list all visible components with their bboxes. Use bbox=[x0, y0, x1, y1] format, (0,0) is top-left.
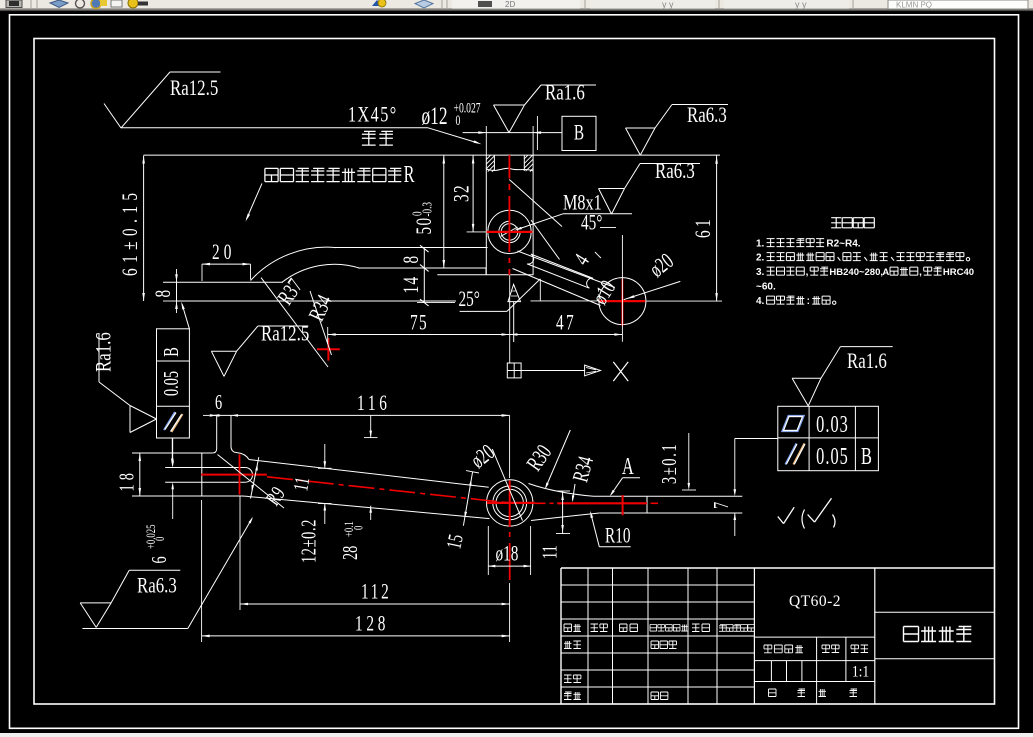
dimension 8 (band thickness) bbox=[423, 249, 425, 268]
upper view: base strip top edge bbox=[163, 281, 283, 283]
upper view: hatching right band bbox=[524, 155, 528, 159]
svg-text:8: 8 bbox=[151, 290, 176, 298]
svg-text:61±0.15: 61±0.15 bbox=[118, 187, 143, 276]
label CJK: shen-he (check) bbox=[564, 675, 572, 683]
dimension 18 bbox=[139, 453, 141, 496]
dimension 61±0.15 left bbox=[143, 156, 145, 302]
svg-text:3.: 3. bbox=[756, 267, 765, 278]
flatness symbol bbox=[783, 416, 804, 431]
centerline: neck vertical (red) bbox=[239, 454, 241, 494]
title block stage row verticals bbox=[816, 637, 818, 704]
svg-text:Ra6.3: Ra6.3 bbox=[687, 103, 727, 128]
svg-text:R2~R4.: R2~R4. bbox=[826, 239, 860, 250]
svg-text:1X45°: 1X45° bbox=[348, 103, 398, 127]
lower view: neck left edge bbox=[216, 415, 218, 448]
svg-text:A: A bbox=[882, 267, 889, 278]
dimension 12±0.2 bbox=[324, 444, 326, 468]
tolerance frame (flatness 0.03 / parallelism 0.05 B) bbox=[778, 406, 879, 470]
upper view: M8 tapped hole circle bbox=[501, 224, 518, 241]
toolbar icon: window bbox=[6, 0, 22, 8]
centerline: bar slot horizontal (red) bbox=[201, 474, 267, 476]
extension: ball center vertical bbox=[621, 235, 623, 342]
centerline: right arm horizontal (red) bbox=[535, 502, 546, 504]
svg-text:y y: y y bbox=[795, 0, 807, 10]
dimension 8 (base thickness, left) bbox=[176, 269, 178, 282]
svg-text:12±0.2: 12±0.2 bbox=[297, 519, 320, 563]
label CJK: she-ji (design) bbox=[564, 641, 572, 649]
svg-text:QT60-2: QT60-2 bbox=[789, 593, 841, 610]
dimension 61 right bbox=[716, 155, 718, 301]
lower view: slot right end arc bbox=[245, 468, 252, 483]
svg-text:y y: y y bbox=[662, 0, 674, 10]
lower view: slot upper line bbox=[165, 467, 245, 469]
lower view: right neck bottom curve bbox=[531, 513, 599, 521]
centerline: ball cross (red) bbox=[621, 279, 623, 296]
label CJK liang-duan (both ends) bbox=[362, 131, 376, 145]
svg-text:116: 116 bbox=[357, 391, 391, 416]
svg-text:R: R bbox=[404, 162, 415, 188]
upper view: base strip left edge bbox=[176, 282, 178, 301]
title block outline bbox=[561, 567, 995, 569]
dimension 6 top bbox=[210, 414, 217, 417]
svg-text:B: B bbox=[159, 347, 182, 357]
svg-text:20: 20 bbox=[212, 240, 235, 265]
lower view: bar top edge with extension bbox=[132, 452, 212, 454]
svg-text:0: 0 bbox=[153, 536, 167, 541]
toolbar white field bbox=[452, 0, 580, 9]
dimension 112 bbox=[240, 603, 510, 605]
svg-text:0.05: 0.05 bbox=[159, 371, 182, 396]
dimension 3±0.1 bbox=[688, 433, 690, 487]
radius leader R37 bbox=[261, 278, 328, 367]
svg-text:128: 128 bbox=[355, 612, 389, 637]
upper view: ball end circle bbox=[599, 278, 646, 325]
dimension line 75/47 horizontal bbox=[328, 334, 623, 336]
dimension 28 +0.1/0 bbox=[370, 415, 372, 437]
svg-text:25°: 25° bbox=[459, 287, 480, 312]
svg-text:112: 112 bbox=[361, 580, 392, 605]
upper view: shaft bottom face bbox=[437, 274, 533, 276]
svg-text:4.: 4. bbox=[756, 296, 765, 307]
centerline: arm inclined (red dash-dot) bbox=[267, 477, 510, 503]
dimension ø12 +0.027/0 and line to datum B bbox=[463, 132, 562, 134]
svg-text:B: B bbox=[861, 444, 872, 470]
svg-text:47: 47 bbox=[556, 311, 576, 336]
title block QT60-2 cell bbox=[754, 636, 874, 638]
surface symbol Ra6.3 (on M8 leader line) bbox=[599, 188, 625, 190]
surface symbol Ra12.5 top-left bbox=[104, 104, 121, 129]
svg-text:Ra1.6: Ra1.6 bbox=[91, 332, 116, 372]
lower view: slot lower line bbox=[165, 481, 245, 483]
svg-text:+0.025: +0.025 bbox=[144, 524, 158, 549]
svg-text:Ra6.3: Ra6.3 bbox=[137, 573, 177, 598]
svg-text:ø12: ø12 bbox=[422, 102, 448, 130]
toolbar icon: blue diamond bbox=[50, 0, 68, 8]
dimension 7 with frame leader bbox=[734, 439, 736, 494]
upper view: hatching left band bbox=[486, 155, 490, 159]
radius label R9 with leader bbox=[218, 455, 285, 509]
X axis label bbox=[613, 362, 628, 381]
svg-text:B: B bbox=[574, 121, 584, 146]
lower view: right bar bottom edge bbox=[599, 512, 742, 514]
part number QT60-2 is above; part name CJK: speed regulating lever bbox=[904, 627, 919, 642]
svg-text:75: 75 bbox=[410, 311, 428, 336]
surface symbol Ra1.6 rotated (left) bbox=[98, 333, 100, 382]
feature control frame vertical (parallelism 0.05 B) bbox=[157, 329, 190, 438]
svg-text:50: 50 bbox=[412, 216, 437, 234]
svg-text:6: 6 bbox=[215, 390, 222, 413]
svg-text:0: 0 bbox=[352, 525, 366, 530]
upper view: break (wavy) line across shaft bbox=[486, 168, 533, 171]
upper view: shaft right edge bbox=[532, 155, 534, 275]
upper view: arm lower tangent line to ball bbox=[513, 269, 601, 306]
svg-text:1.: 1. bbox=[756, 239, 765, 250]
svg-text:11: 11 bbox=[538, 545, 561, 559]
lower view: hub bore circle bbox=[496, 489, 523, 516]
frame leader to lower view slot bbox=[171, 438, 173, 464]
surface symbol Ra12.5 lower bbox=[211, 350, 236, 352]
svg-text:28: 28 bbox=[338, 546, 361, 560]
dimension 128 bbox=[202, 635, 510, 637]
svg-text:Ra6.3: Ra6.3 bbox=[655, 159, 695, 184]
toolbar icon: globe bbox=[91, 0, 101, 9]
svg-text:A: A bbox=[622, 454, 634, 480]
svg-text:Ra1.6: Ra1.6 bbox=[545, 80, 585, 105]
svg-text:Ra12.5: Ra12.5 bbox=[261, 321, 309, 346]
svg-text:-0.3: -0.3 bbox=[421, 202, 435, 217]
rest-of-surfaces mark: check ( check ) bbox=[778, 517, 784, 524]
upper view: arm slot (rounded) bbox=[527, 254, 593, 288]
svg-text:2.: 2. bbox=[756, 253, 765, 264]
svg-text:,: , bbox=[806, 267, 809, 278]
upper view: arm band bottom edge bbox=[358, 267, 486, 269]
parallelism symbol bbox=[786, 444, 797, 465]
technical requirements title CJK bbox=[831, 218, 841, 228]
toolbar icon: light diamond bbox=[415, 0, 433, 8]
dimension 15 (across arm) bbox=[463, 472, 472, 526]
bottom status strip bbox=[0, 733, 1033, 737]
lower view: section line at A bbox=[646, 496, 648, 513]
note CJK: machining allowed within this length R bbox=[265, 168, 278, 181]
dimension 11 right bbox=[562, 491, 564, 534]
lower view: right neck top concave curve R30 bbox=[529, 484, 594, 497]
svg-text:3±0.1: 3±0.1 bbox=[657, 443, 680, 484]
dimension 116 bbox=[212, 414, 510, 416]
svg-text:18: 18 bbox=[115, 469, 138, 491]
svg-text:HRC40: HRC40 bbox=[943, 267, 974, 278]
label CJK: stage mark / weight / scale bbox=[764, 645, 772, 653]
svg-text:45°: 45° bbox=[581, 211, 602, 236]
title block left table verticals bbox=[587, 568, 589, 704]
svg-text:32: 32 bbox=[450, 184, 475, 202]
centerline: shaft vertical (red) bbox=[508, 155, 510, 178]
surface symbol Ra6.3 (on top edge) bbox=[626, 127, 656, 129]
svg-text:Ra12.5: Ra12.5 bbox=[170, 76, 218, 101]
svg-text:R10: R10 bbox=[605, 524, 630, 549]
label CJK: gong-yi (process) bbox=[564, 692, 572, 700]
lower view: bar bottom edge with extension bbox=[132, 495, 242, 497]
upper view: elbow inner arc R34 bbox=[282, 264, 360, 282]
lower view: bar left edge bbox=[201, 453, 203, 496]
dimension 6 +0.025/0 (slot) bbox=[172, 438, 174, 463]
svg-text:61: 61 bbox=[691, 216, 716, 238]
toolbar separators mid bbox=[441, 0, 443, 8]
svg-text:~60.: ~60. bbox=[756, 282, 776, 293]
upper view: 45deg second line bbox=[531, 220, 560, 260]
lower view: R9 fillet and arm top edge bbox=[237, 453, 249, 460]
centerline: boss horizontal (red) bbox=[487, 231, 533, 233]
svg-text::: : bbox=[807, 296, 810, 307]
svg-text:2D: 2D bbox=[505, 0, 515, 9]
svg-text:14: 14 bbox=[399, 275, 424, 293]
radius leader R34 bbox=[310, 291, 332, 355]
upper view: elbow outer arc R37 bbox=[251, 247, 337, 280]
lower view: arm bottom edge bbox=[242, 495, 249, 498]
centerline: hub cross (red) bbox=[487, 502, 535, 504]
dimension 20 bbox=[202, 263, 251, 265]
svg-text:ø18: ø18 bbox=[496, 542, 519, 567]
surface symbol Ra6.3 lower-left with leader bbox=[80, 602, 111, 604]
upper view: arm band top edge bbox=[334, 247, 488, 249]
CAD application toolbar strip (cut off at top) bbox=[0, 0, 1033, 11]
extension: 75 left to arc center bbox=[327, 327, 329, 344]
arc center mark red cross (R37/R34 center) bbox=[317, 348, 340, 350]
toolbar icon: box bbox=[111, 0, 122, 7]
upper view: part top edge line (61 extension, full length) bbox=[144, 154, 720, 156]
svg-text:Ra1.6: Ra1.6 bbox=[847, 349, 887, 374]
lower view: hub middle circle bbox=[493, 486, 527, 520]
label CJK: biao-ji (mark) row bbox=[564, 624, 572, 632]
svg-text:6: 6 bbox=[147, 556, 170, 563]
surface symbol Ra1.6 lower right bbox=[792, 377, 821, 379]
svg-text:1:1: 1:1 bbox=[852, 664, 869, 681]
svg-text:0.03: 0.03 bbox=[816, 412, 849, 438]
section direction arrow (vertical) bbox=[508, 284, 521, 301]
upper view: shaft left edge bbox=[485, 155, 487, 275]
svg-text:0: 0 bbox=[456, 112, 461, 128]
dimension 50 0/-0.3 bbox=[443, 155, 445, 268]
toolbar separator bbox=[30, 0, 32, 8]
toolbar icon: yellow tool bbox=[128, 0, 138, 8]
lower view: hub outer circle bbox=[487, 480, 533, 526]
upper view: 45deg chamfer line bbox=[509, 180, 562, 227]
upper view: shaft bore edges (hatched section) bbox=[493, 155, 495, 170]
dimension 14 bbox=[423, 268, 425, 303]
centerline: right arm cross vertical (red) bbox=[622, 495, 624, 515]
upper view: base strip bottom edge bbox=[177, 300, 457, 302]
surface symbol Ra1.6 top (on ø12 dim) bbox=[494, 104, 525, 106]
lower view: neck right edge bbox=[230, 415, 232, 447]
extension: shaft center line down to UCS bbox=[509, 276, 511, 364]
svg-text:8: 8 bbox=[399, 256, 424, 264]
svg-text:0.05: 0.05 bbox=[816, 444, 849, 470]
frame leader to upper view base bbox=[182, 304, 189, 329]
title block right column horizontals bbox=[875, 611, 995, 613]
toolbar icon: mid group blue-yellow bbox=[372, 0, 382, 6]
note leader bbox=[247, 183, 263, 219]
svg-text:,: , bbox=[919, 267, 922, 278]
upper view: M8 thread arc bbox=[499, 221, 520, 242]
upper view: arm upper tangent line to ball bbox=[518, 251, 615, 288]
datum box B bbox=[562, 116, 596, 150]
lower view: right bar top edge bbox=[594, 495, 743, 497]
UCS icon with X axis bbox=[507, 363, 521, 378]
dimension 11 (left, across arm) bbox=[251, 457, 259, 498]
dimension 32 bbox=[472, 155, 474, 232]
svg-text:KLMN PQ: KLMN PQ bbox=[896, 1, 932, 10]
title block left table horizontals bbox=[561, 584, 754, 586]
toolbar combo box right bbox=[852, 0, 854, 8]
label CJK: total sheets bbox=[769, 689, 777, 697]
svg-text:HB240~280,: HB240~280, bbox=[829, 267, 883, 278]
title block main vertical dividers bbox=[753, 568, 755, 704]
upper view: boss circle bbox=[488, 210, 531, 253]
dimension ø18 bbox=[487, 526, 489, 575]
svg-text:7: 7 bbox=[709, 502, 732, 509]
upper view: thread diagonal bbox=[501, 227, 518, 236]
toolbar icon: circle tool bbox=[76, 0, 85, 8]
